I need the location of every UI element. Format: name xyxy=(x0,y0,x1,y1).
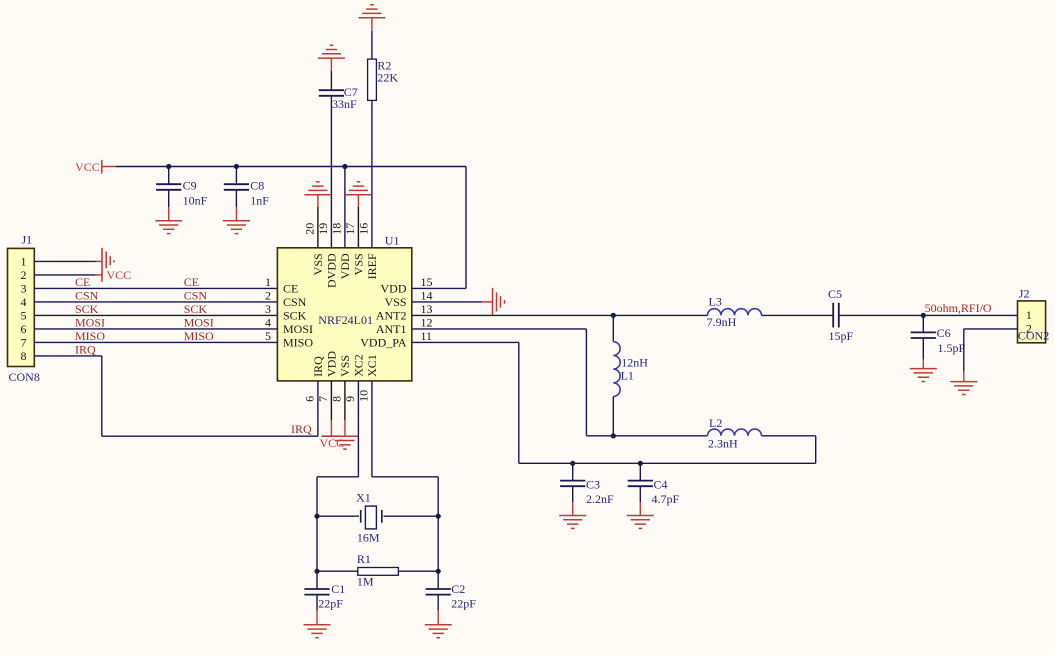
op-amp U1 NRF24L01 body xyxy=(277,234,411,381)
wire XC1 route xyxy=(371,381,373,477)
svg-text:15pF: 15pF xyxy=(829,329,854,343)
node L1 bottom xyxy=(611,433,616,438)
wire VCC rail xyxy=(116,166,466,168)
svg-text:L1: L1 xyxy=(621,369,634,383)
svg-text:VSS: VSS xyxy=(311,253,325,275)
svg-text:VDD_PA: VDD_PA xyxy=(360,335,407,349)
svg-text:1: 1 xyxy=(265,275,271,289)
wire J1 pin1 to VCC xyxy=(34,260,95,262)
node C3 xyxy=(570,461,575,466)
svg-text:ANT2: ANT2 xyxy=(376,308,407,322)
wire ANT1 route xyxy=(412,328,587,330)
svg-text:2: 2 xyxy=(21,268,27,282)
wire CE J1 pin3 to U1 pin1 xyxy=(34,287,277,289)
svg-text:VDD: VDD xyxy=(338,253,352,279)
svg-text:VSS: VSS xyxy=(384,295,406,309)
ground above pin17 xyxy=(345,182,372,248)
svg-text:L3: L3 xyxy=(709,295,722,309)
svg-text:C1: C1 xyxy=(331,582,345,596)
capacitor C4 4.7pF xyxy=(628,463,680,515)
svg-text:SCK: SCK xyxy=(283,308,307,322)
svg-text:1.5pF: 1.5pF xyxy=(938,341,966,355)
svg-text:DVDD: DVDD xyxy=(325,253,339,288)
node rail-C8 xyxy=(234,164,239,169)
svg-text:MOSI: MOSI xyxy=(75,315,105,329)
wire ANT2 to L3 xyxy=(412,314,708,316)
svg-text:4: 4 xyxy=(265,315,271,329)
svg-text:6: 6 xyxy=(302,396,316,402)
svg-text:VCC: VCC xyxy=(107,268,132,282)
ground below C6 xyxy=(910,368,937,370)
svg-text:VCC: VCC xyxy=(75,160,100,174)
svg-text:CON2: CON2 xyxy=(1018,329,1049,343)
capacitor C2 22pF xyxy=(426,582,477,625)
svg-text:CSN: CSN xyxy=(75,288,99,302)
svg-text:16M: 16M xyxy=(357,531,380,545)
svg-text:L2: L2 xyxy=(709,416,722,430)
svg-text:4: 4 xyxy=(21,295,27,309)
power VCC port at J1 xyxy=(102,248,131,282)
ground below C9 xyxy=(155,220,182,222)
svg-text:C8: C8 xyxy=(250,178,264,192)
svg-text:1: 1 xyxy=(1026,308,1032,322)
svg-text:IRQ: IRQ xyxy=(291,422,312,436)
svg-text:J1: J1 xyxy=(22,233,33,247)
wire J1 pin2 to VCC xyxy=(34,274,95,276)
svg-text:22pF: 22pF xyxy=(451,597,476,611)
svg-text:C4: C4 xyxy=(654,478,668,492)
svg-text:VDD: VDD xyxy=(381,281,407,295)
capacitor C5 15pF xyxy=(828,287,854,343)
capacitor C9 10nF xyxy=(156,167,208,221)
svg-text:16: 16 xyxy=(356,223,370,235)
svg-text:19: 19 xyxy=(316,223,330,235)
svg-text:15: 15 xyxy=(421,275,433,289)
svg-text:SCK: SCK xyxy=(75,302,99,316)
svg-text:XC1: XC1 xyxy=(365,354,379,377)
svg-text:20: 20 xyxy=(302,223,316,235)
wire VSS pin14 xyxy=(412,301,482,303)
connector J1 CON8 xyxy=(8,233,40,385)
svg-text:3: 3 xyxy=(21,282,27,296)
svg-text:5: 5 xyxy=(21,309,27,323)
svg-text:VDD: VDD xyxy=(325,351,339,377)
capacitor C6 1.5pF xyxy=(911,315,966,368)
svg-text:C9: C9 xyxy=(183,178,197,192)
ground above C7 xyxy=(318,45,345,90)
wire MOSI J1 pin6 to U1 pin4 xyxy=(34,328,277,330)
wire J2 pin2 to ground xyxy=(964,328,1018,330)
power VCC port pin7 xyxy=(320,381,345,450)
svg-text:C6: C6 xyxy=(937,326,951,340)
crystal X1 16M xyxy=(356,491,382,545)
svg-text:J2: J2 xyxy=(1019,287,1030,301)
svg-text:22K: 22K xyxy=(377,71,398,85)
ground above pin20 xyxy=(304,182,331,248)
svg-text:22pF: 22pF xyxy=(318,597,343,611)
svg-text:12nH: 12nH xyxy=(621,356,648,370)
svg-text:1M: 1M xyxy=(357,575,374,589)
svg-text:CSN: CSN xyxy=(283,295,307,309)
svg-text:MOSI: MOSI xyxy=(283,322,313,336)
connector J2 CON2 xyxy=(1018,287,1050,343)
svg-text:11: 11 xyxy=(421,329,433,343)
ground above R2 xyxy=(358,5,385,59)
svg-text:MISO: MISO xyxy=(283,335,313,349)
svg-text:U1: U1 xyxy=(385,234,400,248)
svg-text:X1: X1 xyxy=(356,491,371,505)
svg-text:50ohm,RFI/O: 50ohm,RFI/O xyxy=(925,301,992,315)
svg-text:R1: R1 xyxy=(357,552,371,566)
node ANT2/L1 xyxy=(611,313,616,318)
svg-text:CSN: CSN xyxy=(184,288,208,302)
svg-text:VSS: VSS xyxy=(338,355,352,377)
svg-text:IRQ: IRQ xyxy=(75,342,96,356)
svg-text:4.7pF: 4.7pF xyxy=(652,492,680,506)
svg-text:1: 1 xyxy=(21,255,27,269)
inductor L3 7.9nH xyxy=(707,295,762,330)
ground below C1 xyxy=(304,624,331,626)
svg-text:VSS: VSS xyxy=(352,253,366,275)
svg-text:CE: CE xyxy=(75,275,90,289)
wire MISO J1 pin7 to U1 pin5 xyxy=(34,341,277,343)
svg-text:12: 12 xyxy=(421,315,433,329)
wire L3 to C5 xyxy=(762,314,834,316)
svg-text:3: 3 xyxy=(265,302,271,316)
svg-text:2: 2 xyxy=(1026,322,1032,336)
wire L2 loop to C3/C4 xyxy=(762,435,816,437)
svg-text:2.2nF: 2.2nF xyxy=(586,492,614,506)
svg-text:SCK: SCK xyxy=(184,302,208,316)
ground below C8 xyxy=(223,220,250,222)
svg-text:18: 18 xyxy=(329,223,343,235)
wire XC2 route xyxy=(357,381,359,477)
svg-text:MISO: MISO xyxy=(75,329,105,343)
svg-text:VCC: VCC xyxy=(320,436,345,450)
svg-text:33nF: 33nF xyxy=(332,97,357,111)
wire R2 to pin16 xyxy=(371,100,373,247)
node X1 right xyxy=(436,514,441,519)
node R1 left xyxy=(314,569,319,574)
wire X1 row xyxy=(317,515,359,517)
svg-text:6: 6 xyxy=(21,322,27,336)
node RF out xyxy=(921,313,926,318)
wire C7 to pin19 xyxy=(330,96,332,248)
ground port pin8 xyxy=(331,381,358,449)
power VCC rail label xyxy=(75,160,116,174)
resistor R2 xyxy=(368,59,399,101)
node X1 left xyxy=(314,514,319,519)
svg-text:ANT1: ANT1 xyxy=(376,322,407,336)
svg-text:IREF: IREF xyxy=(365,253,379,279)
wire SCK J1 pin5 to U1 pin3 xyxy=(34,314,277,316)
svg-text:7: 7 xyxy=(21,336,27,350)
svg-text:1nF: 1nF xyxy=(250,194,269,208)
wire C5 to J2 xyxy=(839,314,1018,316)
node rail-C9 xyxy=(166,164,171,169)
svg-text:17: 17 xyxy=(343,223,357,235)
svg-text:CON8: CON8 xyxy=(9,370,40,384)
wire rail to pin18 xyxy=(344,167,346,248)
node R1 right xyxy=(436,569,441,574)
svg-text:5: 5 xyxy=(265,329,271,343)
svg-text:NRF24L01: NRF24L01 xyxy=(318,313,373,327)
svg-text:14: 14 xyxy=(421,288,433,302)
wire R1 row xyxy=(317,570,358,572)
ground below J2 pin2 xyxy=(950,381,977,383)
node C4 xyxy=(638,461,643,466)
inductor L1 12nH xyxy=(613,315,648,435)
wire IRQ from J1 pin8 xyxy=(34,355,102,357)
resistor R1 1M xyxy=(357,552,399,589)
svg-text:CE: CE xyxy=(184,275,199,289)
ground below C3 xyxy=(559,515,586,517)
svg-text:IRQ: IRQ xyxy=(311,356,325,377)
capacitor C7 33nF xyxy=(319,85,358,111)
ground below C2 xyxy=(425,624,452,626)
wire pin6 IRQ xyxy=(317,381,319,436)
wire CSN J1 pin4 to U1 pin2 xyxy=(34,301,277,303)
svg-text:MOSI: MOSI xyxy=(184,315,214,329)
svg-text:MISO: MISO xyxy=(184,329,214,343)
capacitor C8 1nF xyxy=(224,167,269,221)
wire VCC rail down to pin15 xyxy=(465,167,467,289)
node rail-VDD pin18 xyxy=(342,164,347,169)
wire to L2 xyxy=(613,435,707,437)
svg-text:C2: C2 xyxy=(451,582,465,596)
svg-text:13: 13 xyxy=(421,302,433,316)
svg-text:C3: C3 xyxy=(586,478,600,492)
svg-text:2: 2 xyxy=(265,288,271,302)
capacitor C1 22pF xyxy=(304,582,345,625)
svg-text:7.9nH: 7.9nH xyxy=(707,315,737,329)
inductor L2 2.3nH xyxy=(708,416,762,451)
wire VDD_PA xyxy=(412,341,519,343)
svg-text:10nF: 10nF xyxy=(183,194,208,208)
capacitor C3 2.2nF xyxy=(560,463,614,515)
svg-text:8: 8 xyxy=(21,349,27,363)
ground at pin14 xyxy=(492,288,494,316)
svg-text:C5: C5 xyxy=(828,287,842,301)
ground below C4 xyxy=(627,515,654,517)
svg-text:XC2: XC2 xyxy=(352,354,366,377)
svg-text:2.3nH: 2.3nH xyxy=(708,437,738,451)
svg-text:CE: CE xyxy=(283,281,298,295)
